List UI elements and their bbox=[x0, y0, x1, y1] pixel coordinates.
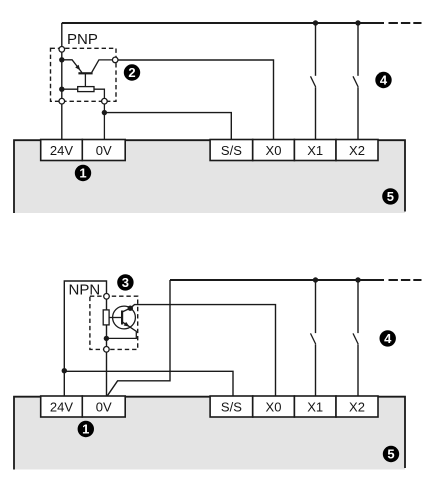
svg-text:0V: 0V bbox=[96, 399, 112, 414]
callout 4 (top) bbox=[375, 72, 391, 88]
emitter arrow (NPN) bbox=[124, 322, 130, 327]
PLC block (gray) top bbox=[14, 139, 405, 213]
wire emitter lead bbox=[62, 60, 82, 73]
terminal circle top (NPN box) bbox=[104, 294, 110, 300]
svg-text:X0: X0 bbox=[266, 399, 282, 414]
node X2 rail junction bbox=[355, 20, 360, 25]
wire 24V vertical bbox=[61, 23, 63, 140]
terminal box 24V bbox=[41, 140, 83, 161]
callout 5 (bottom) bbox=[383, 446, 399, 462]
svg-text:4: 4 bbox=[380, 73, 388, 88]
terminal box S/S bbox=[210, 140, 253, 161]
svg-text:NPN: NPN bbox=[69, 282, 101, 299]
PLC block border bottom bbox=[14, 397, 405, 470]
wire collector to X0 bbox=[115, 60, 273, 140]
wire X2 drop lower bbox=[357, 344, 359, 396]
PLC block (gray) bottom bbox=[14, 396, 405, 470]
svg-text:3: 3 bbox=[122, 275, 129, 290]
svg-text:1: 1 bbox=[82, 422, 89, 437]
PLC block border bbox=[14, 140, 405, 213]
top rail 0V side bbox=[170, 279, 384, 281]
terminal box 0V bbox=[82, 140, 125, 161]
terminal box X1 bbox=[294, 140, 336, 161]
switch X1 blade bbox=[311, 76, 316, 87]
svg-text:X0: X0 bbox=[266, 143, 282, 158]
wire collector to X0 bbox=[130, 305, 275, 396]
wire rail to 0V (down, left, diagonal) bbox=[107, 280, 170, 396]
callout 3 bbox=[117, 274, 133, 290]
svg-text:S/S: S/S bbox=[221, 143, 242, 158]
svg-text:24V: 24V bbox=[50, 143, 73, 158]
svg-text:X1: X1 bbox=[307, 399, 323, 414]
switch X2 blade bbox=[353, 333, 358, 344]
callout 5 (top) bbox=[382, 188, 398, 204]
terminal circle collector bbox=[112, 57, 118, 63]
wire resistor left bbox=[62, 88, 78, 90]
terminal box X0 bbox=[253, 140, 295, 161]
emitter arrow (PNP) bbox=[75, 65, 80, 71]
transistor Q2 circle bbox=[113, 306, 136, 329]
wire collector lead bbox=[122, 308, 130, 312]
node X1 rail junction bbox=[313, 20, 318, 25]
terminal circle bottom (NPN box) bbox=[104, 347, 110, 353]
wire S/S branch bbox=[64, 371, 233, 396]
svg-text:24V: 24V bbox=[50, 399, 73, 414]
wire base lead bbox=[109, 317, 122, 319]
wire X1 drop lower bbox=[315, 344, 317, 396]
terminal box X2 bbox=[336, 396, 378, 417]
terminal box 24V bbox=[41, 396, 83, 417]
wire X2 drop upper bbox=[357, 23, 359, 76]
callout 1 (top) bbox=[75, 165, 91, 181]
node S/S branch junction bbox=[102, 110, 107, 115]
terminal box X0 bbox=[253, 396, 295, 417]
rail dashed continuation bbox=[389, 22, 422, 24]
top rail 24V side bbox=[62, 22, 384, 24]
rail dashed continuation bbox=[389, 279, 422, 281]
svg-text:X2: X2 bbox=[349, 143, 365, 158]
wire base to resistor bbox=[84, 73, 86, 86]
wire collector lead bbox=[92, 60, 113, 73]
svg-text:PNP: PNP bbox=[67, 31, 98, 48]
svg-text:1: 1 bbox=[79, 166, 86, 181]
node X2 rail junction bbox=[355, 277, 360, 282]
terminal box X1 bbox=[294, 396, 336, 417]
sensor dashed box NPN bbox=[90, 296, 138, 349]
sensor dashed box PNP bbox=[51, 48, 117, 101]
node emitter junction bbox=[104, 336, 109, 341]
wire X2 drop upper bbox=[357, 280, 359, 333]
wire X2 drop lower bbox=[357, 87, 359, 139]
terminal circle bottom-left bbox=[59, 98, 65, 104]
callout 1 (bottom) bbox=[78, 421, 94, 437]
svg-text:5: 5 bbox=[387, 189, 394, 204]
wire S/S branch bbox=[104, 113, 231, 140]
svg-text:5: 5 bbox=[387, 447, 394, 462]
terminal box X2 bbox=[336, 140, 378, 161]
svg-text:0V: 0V bbox=[96, 143, 112, 158]
wire emitter lead (NPN) bbox=[106, 322, 136, 339]
wire X1 drop lower bbox=[315, 87, 317, 139]
callout 4 (bottom) bbox=[380, 330, 396, 346]
switch X1 blade bbox=[311, 333, 316, 344]
node X1 rail junction bbox=[313, 277, 318, 282]
transistor Q2 base bar bbox=[121, 311, 123, 325]
terminal box S/S bbox=[210, 396, 253, 417]
svg-text:4: 4 bbox=[384, 331, 392, 346]
terminal circle top bbox=[59, 47, 65, 53]
transistor Q1 base bar bbox=[78, 72, 92, 74]
terminal circle bottom-right bbox=[102, 98, 108, 104]
node resistor-left junction bbox=[59, 87, 64, 92]
resistor R1 bbox=[78, 87, 94, 92]
wire X1 drop upper bbox=[315, 280, 317, 333]
svg-text:X2: X2 bbox=[349, 399, 365, 414]
wire X1 drop upper bbox=[315, 23, 317, 76]
wire 24V up-over-down to 0V bbox=[64, 281, 106, 396]
wire resistor right to 0V bbox=[94, 89, 104, 139]
resistor R2 bbox=[103, 310, 109, 325]
callout 2 bbox=[124, 64, 140, 80]
node S/S branch junction bbox=[62, 368, 67, 373]
node collector junction bbox=[128, 306, 133, 311]
switch X2 blade bbox=[353, 76, 358, 87]
svg-text:S/S: S/S bbox=[221, 399, 242, 414]
node emitter junction bbox=[59, 57, 64, 62]
svg-text:2: 2 bbox=[128, 65, 135, 80]
terminal box 0V bbox=[82, 396, 125, 417]
svg-text:X1: X1 bbox=[307, 143, 323, 158]
